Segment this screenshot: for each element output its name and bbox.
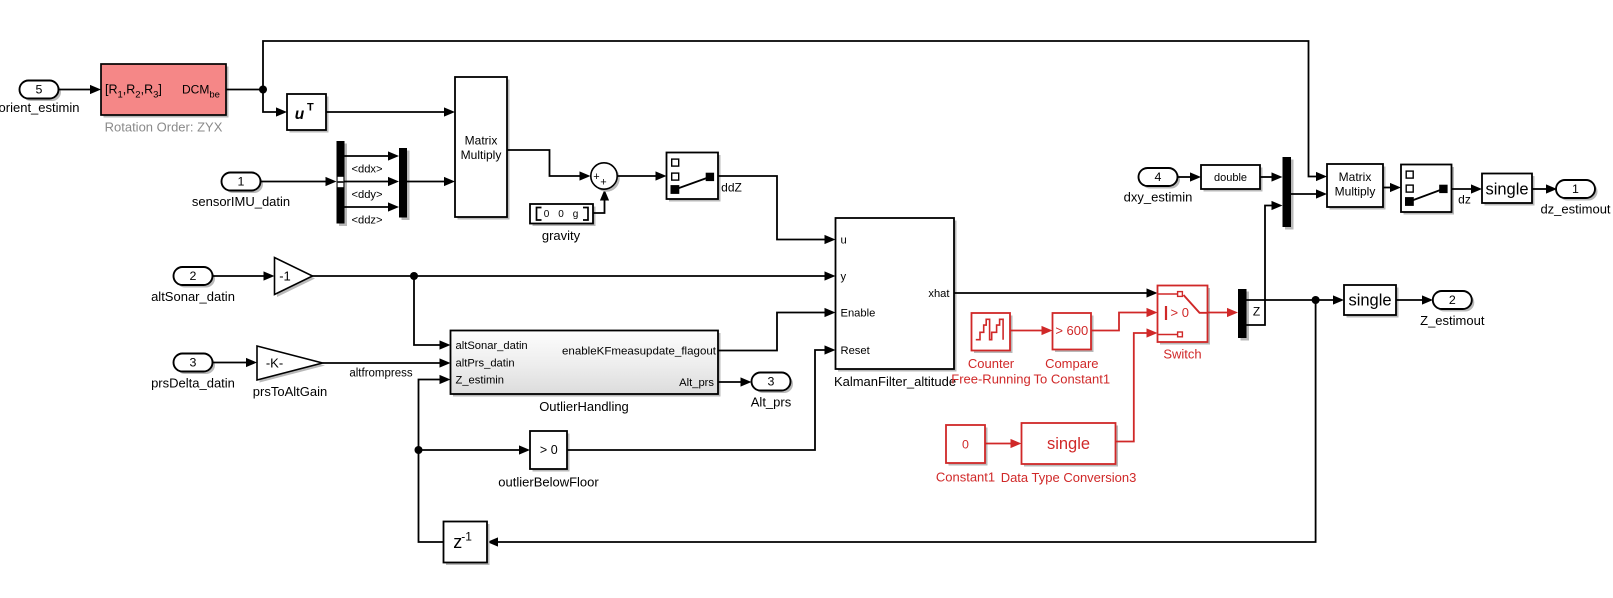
compare block Compare To Constant1 (> 600): [1053, 313, 1094, 352]
svg-text:prsDelta_datin: prsDelta_datin: [151, 376, 235, 391]
svg-text:Constant1: Constant1: [936, 470, 995, 485]
svg-text:2: 2: [190, 269, 197, 283]
label OutlierHandling: [539, 399, 629, 414]
wire xhat to Switch input 1: [954, 288, 1158, 297]
label Constant1: [936, 470, 995, 485]
outport 1 dz_estimout: [1540, 180, 1610, 217]
svg-text:Matrix: Matrix: [1339, 170, 1372, 184]
svg-text:Rotation Order: ZYX: Rotation Order: ZYX: [105, 120, 223, 135]
svg-text:> 0: > 0: [540, 443, 558, 457]
wire Alt_prs to outport 3: [718, 377, 752, 386]
svg-text:-K-: -K-: [266, 356, 283, 371]
wire Counter to Compare To Constant1: [1010, 326, 1053, 335]
wire Matrix Multiply to sum: [507, 150, 591, 181]
svg-text:single: single: [1348, 292, 1391, 310]
wire bus selector ddz to mux: [345, 202, 400, 211]
signal label dz: [1458, 193, 1471, 207]
svg-text:Z_estimin: Z_estimin: [456, 374, 505, 386]
wire inport2 to gain -1: [213, 271, 275, 280]
wire junction to outlierBelowFloor: [419, 445, 531, 454]
wire Data Type Conversion3 to Switch input 3: [1116, 328, 1158, 441]
gain block -1: [275, 258, 316, 298]
label Data Type Conversion3: [1001, 470, 1137, 485]
subsystem OutlierHandling: [451, 331, 721, 397]
svg-text:0: 0: [544, 209, 550, 220]
svg-text:ddZ: ddZ: [721, 181, 742, 195]
label Counter Free-Running: [951, 356, 1031, 387]
wire Switch to demux: [1208, 308, 1239, 317]
wire bus selector ddx to mux: [345, 151, 400, 160]
wire DCM output to junction: [226, 89, 263, 91]
inport 5 orient_estimin: [0, 81, 79, 116]
signal label Z: [1253, 305, 1260, 319]
svg-text:+: +: [600, 177, 606, 189]
svg-text:T: T: [307, 102, 314, 114]
svg-text:Switch: Switch: [1163, 347, 1201, 362]
inport 2 altSonar_datin: [151, 267, 235, 304]
wire mux to Matrix Multiply input 2: [407, 177, 455, 186]
svg-text:KalmanFilter_altitude: KalmanFilter_altitude: [834, 374, 956, 389]
sum block (add gravity): [591, 163, 620, 192]
label KalmanFilter_altitude: [834, 374, 956, 389]
label Switch: [1163, 347, 1201, 362]
wire double to mux right: [1260, 172, 1283, 181]
svg-text:Compare: Compare: [1045, 356, 1098, 371]
wire gain -K- to OutlierHandling altPrs_datin: [323, 358, 451, 367]
wire uT to Matrix Multiply input 1: [326, 107, 455, 116]
svg-text:u: u: [295, 106, 305, 123]
svg-text:0: 0: [558, 209, 564, 220]
subsystem KalmanFilter_altitude: [836, 218, 957, 372]
unit delay block z^-1: [444, 522, 490, 566]
wire feedback junction to unit delay: [487, 300, 1316, 547]
junction unit delay output: [415, 446, 423, 454]
inport 1 sensorIMU_datin: [192, 173, 290, 210]
label prsToAltGain: [253, 384, 327, 399]
svg-text:xhat: xhat: [928, 288, 950, 300]
svg-text:y: y: [841, 271, 847, 283]
DCM block (Rotation Order ZYX): [101, 64, 229, 118]
counter block Counter Free-Running: [972, 313, 1013, 353]
svg-text:dxy_estimin: dxy_estimin: [1124, 190, 1193, 205]
signal label ddx: [351, 164, 382, 176]
svg-text:altSonar_datin: altSonar_datin: [456, 340, 528, 352]
svg-text:dz: dz: [1458, 193, 1471, 207]
svg-text:Free-Running: Free-Running: [951, 372, 1031, 387]
wire unit delay out to junction and OutlierHandling Z_estimin: [419, 375, 451, 542]
wire sum to selector: [617, 171, 666, 180]
data type conversion block single (dz path): [1482, 174, 1535, 206]
svg-text:Counter: Counter: [968, 356, 1015, 371]
wire demux Z out to single (Z path): [1247, 295, 1345, 304]
svg-text:enableKFmeasupdate_flagout: enableKFmeasupdate_flagout: [562, 346, 717, 358]
svg-text:<ddx>: <ddx>: [351, 164, 382, 176]
compare block outlierBelowFloor (> 0): [530, 431, 570, 472]
wire enableKF to Kalman Enable: [718, 308, 836, 351]
svg-text:To Constant1: To Constant1: [1033, 372, 1110, 387]
wire inport5 to DCM: [59, 85, 102, 94]
svg-text:orient_estimin: orient_estimin: [0, 100, 79, 115]
wire outlierBelowFloor to Kalman Reset: [567, 345, 836, 450]
mux bar left: [399, 148, 410, 220]
wire Matrix Multiply 2 to selector dz: [1383, 183, 1401, 192]
data type conversion block single (Z path): [1344, 285, 1399, 318]
svg-text:dz_estimout: dz_estimout: [1540, 202, 1610, 217]
inport 3 prsDelta_datin: [151, 354, 235, 391]
svg-text:Z_estimout: Z_estimout: [1420, 313, 1485, 328]
svg-text:Z: Z: [1253, 305, 1260, 319]
wire gain -1 to Kalman y: [313, 271, 836, 280]
label gravity: [542, 228, 581, 243]
wire inport4 to double: [1178, 172, 1202, 181]
junction altSonar signal: [410, 272, 418, 280]
svg-text:0: 0: [962, 437, 969, 451]
svg-text:altSonar_datin: altSonar_datin: [151, 289, 235, 304]
svg-text:-1: -1: [279, 269, 291, 284]
svg-text:gravity: gravity: [542, 228, 581, 243]
svg-text:Multiply: Multiply: [1335, 185, 1376, 199]
svg-text:single: single: [1485, 181, 1528, 199]
wire selector ddZ to Kalman u: [718, 176, 836, 244]
outport 3 Alt_prs: [751, 373, 793, 410]
svg-text:Alt_prs: Alt_prs: [751, 395, 792, 410]
svg-text:3: 3: [190, 355, 197, 369]
svg-text:<ddy>: <ddy>: [351, 189, 382, 201]
label Compare To Constant1: [1033, 356, 1110, 387]
svg-text:prsToAltGain: prsToAltGain: [253, 384, 327, 399]
demux bar Z: [1238, 289, 1249, 341]
label Rotation Order: ZYX: [105, 120, 223, 135]
math transpose block uT: [287, 94, 329, 133]
svg-text:sensorIMU_datin: sensorIMU_datin: [192, 194, 290, 209]
Matrix Multiply block right: [1327, 164, 1386, 210]
wire inport3 to gain -K-: [213, 358, 257, 367]
svg-text:1: 1: [1572, 182, 1579, 196]
data type conversion block Data Type Conversion3 (single): [1022, 423, 1119, 467]
svg-text:> 600: > 600: [1055, 323, 1088, 338]
junction Z estimate: [1312, 296, 1320, 304]
inport 4 dxy_estimin: [1124, 168, 1193, 205]
svg-text:5: 5: [36, 82, 43, 96]
svg-text:OutlierHandling: OutlierHandling: [539, 399, 629, 414]
svg-text:Reset: Reset: [841, 345, 871, 357]
signal label ddZ: [721, 181, 742, 195]
svg-text:-1: -1: [461, 530, 472, 544]
svg-text:altPrs_datin: altPrs_datin: [456, 357, 515, 369]
wire gravity to sum: [593, 190, 609, 214]
svg-text:2: 2: [1449, 293, 1456, 307]
svg-text:u: u: [841, 235, 847, 247]
data type conversion block double: [1201, 165, 1263, 192]
mux bar right: [1283, 157, 1294, 230]
outport 2 Z_estimout: [1420, 291, 1485, 328]
wire junction up and along top to right Matrix Multiply input 1: [263, 41, 1327, 181]
svg-text:outlierBelowFloor: outlierBelowFloor: [498, 475, 599, 490]
selector block ddZ: [667, 153, 721, 202]
svg-text:4: 4: [1155, 170, 1162, 184]
wire inport1 to bus selector: [261, 177, 337, 186]
svg-text:<ddz>: <ddz>: [351, 215, 382, 227]
svg-text:Data Type Conversion3: Data Type Conversion3: [1001, 470, 1137, 485]
svg-text:Alt_prs: Alt_prs: [679, 377, 714, 389]
svg-text:Matrix: Matrix: [465, 134, 498, 148]
wire mux right to Matrix Multiply 2 input 2: [1291, 189, 1327, 198]
wire single to outport 2: [1396, 295, 1433, 304]
wire Compare to Switch control input: [1091, 308, 1158, 331]
switch block Switch: [1158, 286, 1211, 345]
gain block prsToAltGain -K-: [257, 346, 325, 383]
svg-text:+: +: [593, 171, 599, 183]
selector block dz: [1401, 165, 1454, 215]
svg-text:single: single: [1047, 435, 1090, 453]
bus selector bar: [337, 141, 348, 226]
wire bus selector ddy to mux: [345, 177, 400, 186]
wire junction down to uT block: [263, 90, 287, 117]
wire Constant1 to Data Type Conversion3: [985, 439, 1022, 448]
constant block Constant1 (0): [946, 425, 988, 466]
signal label ddz: [351, 215, 382, 227]
svg-text:> 0: > 0: [1171, 305, 1189, 320]
svg-text:1: 1: [238, 174, 245, 188]
label outlierBelowFloor: [498, 475, 599, 490]
wire single top to outport 1: [1532, 184, 1557, 193]
wire demux dz out up to mux right: [1247, 201, 1283, 325]
svg-text:double: double: [1214, 172, 1247, 184]
wire selector dz to single top: [1452, 184, 1483, 193]
signal label altfrompress: [349, 368, 413, 380]
svg-text:3: 3: [768, 374, 775, 388]
svg-text:Enable: Enable: [841, 308, 876, 320]
signal label ddy: [351, 189, 382, 201]
junction DCM output: [259, 86, 267, 94]
svg-text:Multiply: Multiply: [461, 148, 502, 162]
Matrix Multiply block left: [455, 77, 510, 220]
svg-text:altfrompress: altfrompress: [349, 368, 413, 380]
constant block gravity [0 0 g]: [530, 204, 596, 226]
wire junction to OutlierHandling altSonar_datin: [414, 276, 451, 350]
svg-text:g: g: [573, 209, 579, 220]
